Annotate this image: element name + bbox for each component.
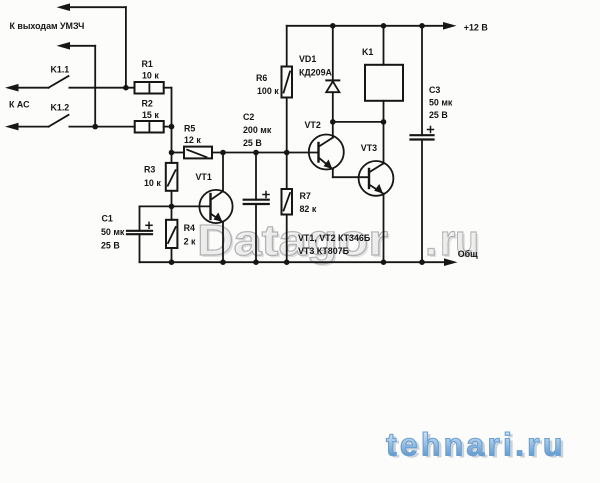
- wire: VT2 emitter to VT3 base: [332, 169, 334, 177]
- junction: common rail / R7: [284, 259, 290, 265]
- resistor R7: [282, 189, 293, 215]
- arrow to UMZCH output 2: [57, 42, 71, 50]
- svg-text:VT1: VT1: [196, 172, 212, 182]
- resistor R2: [135, 121, 164, 133]
- svg-text:К выходам УМЗЧ: К выходам УМЗЧ: [10, 21, 85, 31]
- svg-text:C1: C1: [102, 213, 113, 223]
- wire: left vertical bus: [171, 88, 173, 163]
- wire: R1 right to bus: [164, 87, 172, 89]
- svg-text:K1.1: K1.1: [51, 65, 70, 75]
- svg-text:82 к: 82 к: [300, 204, 317, 214]
- arrow K1.1 to AC: [5, 84, 19, 92]
- svg-text:R1: R1: [142, 59, 153, 69]
- wire: VT2 collector up: [332, 122, 334, 138]
- capacitor C1: [139, 206, 141, 230]
- wire: VT3 collector up: [383, 122, 385, 163]
- capacitor C2: [255, 153, 257, 200]
- wire: output arrow 2 line to K1.2: [68, 45, 95, 47]
- svg-text:50 мк: 50 мк: [101, 227, 125, 237]
- arrow +12V: [443, 22, 457, 30]
- transistor VT3: [359, 161, 394, 196]
- relay K1: [365, 65, 403, 101]
- svg-text:100 к: 100 к: [257, 86, 279, 96]
- VT1 emitter arrowhead: [214, 212, 223, 222]
- svg-text:VD1: VD1: [299, 54, 316, 64]
- svg-text:12 к: 12 к: [184, 135, 201, 145]
- svg-text:K1.2: K1.2: [51, 103, 70, 113]
- arrowheads: [5, 3, 458, 266]
- resistor R6: [282, 67, 293, 98]
- switch K1.1 blade: [49, 76, 69, 88]
- wire: VT1 emitter down: [222, 222, 224, 262]
- junction: VD1 anode / VT2 collector: [330, 119, 336, 125]
- junction: R5 right / VT1 collector: [220, 150, 226, 156]
- svg-text:VT3: VT3: [361, 143, 377, 153]
- wire: VT1 collector up: [222, 153, 224, 192]
- wire: R2 right to bus: [164, 126, 172, 128]
- wire: main horizontal to R5: [172, 152, 185, 154]
- junction: common rail / R4: [169, 259, 175, 265]
- +12V rail: [287, 25, 444, 27]
- wire: K1.1 to R1: [69, 87, 134, 89]
- junction: common rail / C2: [253, 259, 259, 265]
- resistor R1: [135, 82, 164, 94]
- svg-text:R7: R7: [300, 191, 311, 201]
- wire: K1.2 left lead: [16, 126, 49, 128]
- svg-text:R3: R3: [144, 165, 155, 175]
- resistor R5: [184, 147, 212, 159]
- junction: common rail / VT3 emitter: [381, 259, 387, 265]
- junction: +12V rail / K1 coil: [381, 23, 387, 29]
- junction: +12V rail / C3: [419, 23, 425, 29]
- wire: K1.2 to R2: [69, 126, 134, 128]
- junction: common rail / VT1 emitter: [220, 259, 226, 265]
- junction: K1 coil / VT3 collector: [381, 119, 387, 125]
- arrow K1.2 to AC: [5, 123, 19, 131]
- wire: R6 bottom: [286, 98, 288, 153]
- svg-text:25 В: 25 В: [101, 241, 120, 251]
- junction: R2 right / vertical bus: [169, 124, 175, 130]
- arrow to UMZCH output 1: [57, 3, 71, 11]
- arrow common: [444, 258, 458, 266]
- svg-text:К АС: К АС: [9, 100, 30, 110]
- wire: R5 right to VT2 base: [212, 152, 319, 154]
- svg-text:C2: C2: [243, 112, 254, 122]
- svg-text:VT1, VT2 КТ346Б: VT1, VT2 КТ346Б: [298, 233, 371, 243]
- svg-text:КД209А: КД209А: [299, 68, 333, 78]
- svg-text:.: .: [425, 216, 437, 265]
- VT2 emitter arrowhead: [324, 160, 333, 170]
- wire: output arrow 1 line to K1.1: [68, 6, 126, 8]
- transistor VT2: [309, 135, 344, 170]
- svg-text:R4: R4: [184, 223, 195, 233]
- svg-text:VT3 КТ807Б: VT3 КТ807Б: [298, 246, 350, 256]
- wire: K1 top: [383, 26, 385, 65]
- svg-text:Общ: Общ: [458, 249, 478, 259]
- svg-text:R6: R6: [256, 73, 267, 83]
- wire: VD1-K1 link: [333, 121, 384, 123]
- svg-text:25 В: 25 В: [429, 110, 448, 120]
- junction: base wire / C2: [253, 150, 259, 156]
- svg-text:VT2: VT2: [305, 120, 321, 130]
- resistor R3: [166, 163, 178, 191]
- svg-text:tehnari.ru: tehnari.ru: [386, 427, 566, 463]
- VT3 emitter arrowhead: [374, 184, 383, 194]
- wire: VT1 base row: [140, 205, 211, 207]
- wire: R7 bottom: [286, 215, 288, 263]
- junction: K1.1 wire / UMZCH line: [123, 85, 129, 91]
- svg-text:+12 В: +12 В: [464, 23, 488, 33]
- logo tehnari.ru: [386, 427, 569, 465]
- wire: K1 bottom: [383, 101, 385, 122]
- transistor VT1: [199, 190, 232, 223]
- svg-text:10 к: 10 к: [142, 71, 159, 81]
- svg-text:25 В: 25 В: [243, 138, 262, 148]
- junction: common rail / C3: [419, 259, 425, 265]
- svg-text:C3: C3: [429, 85, 440, 95]
- junction: +12V rail / VD1: [330, 23, 336, 29]
- junction: K1.2 wire / UMZCH line: [92, 124, 98, 130]
- svg-text:15 к: 15 к: [142, 110, 159, 120]
- wire: R4 bottom: [171, 248, 173, 262]
- switch K1.2 blade: [49, 115, 69, 127]
- resistor R4: [166, 220, 177, 248]
- wire: K1.1 left lead: [16, 87, 49, 89]
- svg-text:2 к: 2 к: [184, 237, 196, 247]
- svg-text:K1: K1: [362, 47, 373, 57]
- wire: R6 top to +12V rail: [286, 26, 288, 67]
- svg-text:50 мк: 50 мк: [429, 98, 453, 108]
- diode VD1: [332, 26, 334, 81]
- junction: bus / R5 / R3: [169, 150, 175, 156]
- svg-text:10 к: 10 к: [144, 178, 161, 188]
- junction: R3 / R4 / VT1 base: [169, 204, 175, 210]
- watermark Datagor.ru: [197, 216, 481, 267]
- junction: base wire / R6 / R7: [284, 150, 290, 156]
- svg-text:200 мк: 200 мк: [243, 125, 272, 135]
- wire: R3 bottom: [171, 191, 173, 220]
- svg-text:R2: R2: [142, 99, 153, 109]
- svg-text:R5: R5: [184, 124, 195, 134]
- wire: VT3 emitter down: [383, 194, 385, 262]
- common rail: [140, 261, 445, 263]
- wire: R7 top: [286, 153, 288, 190]
- capacitor C3: [421, 26, 423, 135]
